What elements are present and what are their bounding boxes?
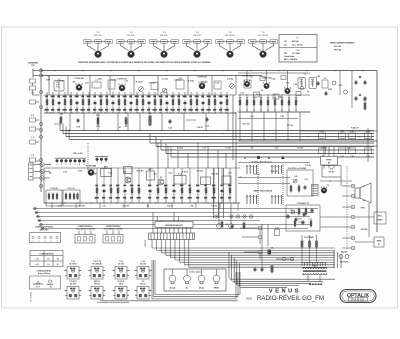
svg-text:680: 680 [94, 174, 97, 176]
svg-text:C.56: C.56 [350, 156, 353, 158]
svg-text:10.7 MHz: 10.7 MHz [292, 53, 300, 55]
svg-text:C.9: C.9 [281, 98, 284, 100]
svg-text:C.40 0.1: C.40 0.1 [197, 126, 203, 129]
svg-text:R.35 470: R.35 470 [137, 170, 144, 173]
svg-text:HP 15: HP 15 [361, 208, 366, 210]
svg-text:Canal faible: Canal faible [284, 56, 295, 58]
svg-text:FM: FM [32, 65, 35, 67]
svg-text:T-10: T-10 [71, 261, 74, 263]
svg-text:C.9: C.9 [274, 98, 277, 100]
svg-text:T-12: T-12 [119, 261, 122, 263]
svg-text:F.I.: F.I. [297, 38, 300, 40]
svg-text:470: 470 [125, 125, 128, 128]
svg-text:B-1: B-1 [186, 288, 189, 290]
svg-text:R.70: R.70 [298, 219, 301, 221]
svg-text:RADIO: RADIO [351, 298, 364, 302]
svg-text:FM: FM [284, 53, 287, 55]
svg-text:R.9: R.9 [364, 100, 367, 102]
svg-text:R.45: R.45 [328, 88, 332, 91]
svg-text:R.35 470: R.35 470 [212, 173, 219, 176]
svg-text:C.9: C.9 [239, 98, 242, 100]
svg-text:VENUS: VENUS [269, 289, 301, 295]
svg-text:432 kHz: 432 kHz [292, 40, 299, 43]
svg-text:BF 254: BF 254 [193, 35, 201, 37]
svg-text:D-5: D-5 [142, 281, 145, 283]
svg-text:a-79: a-79 [35, 264, 38, 266]
svg-text:FM ou GO: FM ou GO [73, 153, 83, 155]
svg-text:RADIO-RÉVEIL GO_FM: RADIO-RÉVEIL GO_FM [257, 295, 324, 302]
svg-text:R.18: R.18 [63, 172, 67, 174]
svg-text:TEMPO: TEMPO [377, 220, 383, 222]
svg-text:C.15: C.15 [59, 114, 63, 116]
svg-text:T-15 (D-1): T-15 (D-1) [69, 281, 77, 283]
svg-text:C.33: C.33 [168, 173, 172, 175]
svg-text:R.2: R.2 [31, 115, 34, 117]
svg-text:PILE 9V: PILE 9V [341, 252, 348, 254]
svg-text:22k: 22k [154, 174, 157, 176]
svg-text:C.25 5p: C.25 5p [227, 79, 233, 81]
svg-text:9-5: 9-5 [57, 259, 59, 261]
svg-text:L.7: L.7 [251, 77, 253, 79]
svg-text:BC 149 B: BC 149 B [258, 35, 268, 37]
svg-text:R.52: R.52 [320, 131, 323, 133]
svg-text:o: o [33, 241, 34, 243]
svg-text:1k: 1k [253, 110, 255, 112]
svg-text:FM 9.68: FM 9.68 [334, 50, 341, 52]
svg-text:P.2 ou VOLUME: P.2 ou VOLUME [294, 168, 306, 170]
svg-text:C.9: C.9 [267, 98, 270, 100]
svg-text:GO: GO [284, 41, 287, 43]
svg-text:C.33: C.33 [124, 81, 128, 83]
svg-text:C.9 10n: C.9 10n [225, 148, 231, 150]
svg-text:C.3: C.3 [31, 137, 34, 139]
svg-text:F.I.2: F.I.2 [178, 174, 181, 176]
svg-text:C.41: C.41 [240, 92, 244, 95]
svg-text:C.25 5p: C.25 5p [305, 165, 311, 167]
svg-text:C.9: C.9 [288, 98, 291, 100]
svg-text:X691: X691 [246, 296, 253, 300]
svg-text:C.62: C.62 [289, 210, 292, 212]
svg-text:BC 158: BC 158 [70, 283, 76, 285]
svg-text:T-11 (T-13): T-11 (T-13) [93, 261, 101, 263]
svg-text:R.8 2.2k: R.8 2.2k [136, 82, 142, 84]
svg-text:TENSIONS MESUREES AVEC VOLTMET: TENSIONS MESUREES AVEC VOLTMETRE A LAMPE… [78, 61, 211, 64]
svg-text:1k: 1k [260, 110, 262, 112]
svg-text:C.33: C.33 [215, 83, 219, 85]
svg-text:L.8: L.8 [304, 74, 306, 76]
svg-text:o: o [51, 241, 52, 243]
svg-text:C.75 REGUL VIT: C.75 REGUL VIT [297, 203, 309, 205]
svg-text:T.6: T.6 [160, 177, 162, 179]
svg-text:1k: 1k [281, 110, 283, 112]
svg-text:R.52: R.52 [340, 131, 343, 133]
svg-text:1k: 1k [288, 110, 290, 112]
svg-text:R.3 150: R.3 150 [211, 206, 217, 208]
svg-text:DRIVE GAMMES PASSEES: DRIVE GAMMES PASSEES [330, 42, 355, 45]
svg-text:COMMUTATEURS: COMMUTATEURS [39, 252, 54, 255]
svg-text:L.9: L.9 [324, 78, 326, 80]
svg-text:L.2: L.2 [95, 80, 97, 82]
svg-text:R.47 100: R.47 100 [243, 123, 250, 126]
svg-text:CONNECTEUR AV: CONNECTEUR AV [37, 270, 52, 273]
svg-text:R.8 2.2k: R.8 2.2k [177, 148, 183, 150]
svg-text:R.52: R.52 [350, 131, 353, 133]
svg-text:BF 194 B: BF 194 B [225, 35, 235, 37]
svg-text:C.28: C.28 [168, 128, 172, 130]
svg-text:CONNECTEUR GO-FM: CONNECTEUR GO-FM [35, 227, 54, 229]
svg-text:T.10: T.10 [330, 169, 333, 171]
svg-text:R.18: R.18 [78, 171, 82, 173]
svg-text:5p: 5p [307, 91, 309, 93]
svg-text:FM: FM [296, 50, 299, 52]
svg-text:C.63: C.63 [298, 222, 301, 224]
svg-text:2-5: 2-5 [47, 259, 49, 261]
svg-text:C.9 10n: C.9 10n [162, 79, 168, 81]
svg-text:1k: 1k [267, 110, 269, 112]
svg-text:C.9: C.9 [253, 98, 256, 100]
svg-text:C.4: C.4 [31, 154, 34, 157]
svg-text:C.48: C.48 [316, 75, 320, 78]
svg-text:BF 255: BF 255 [127, 35, 135, 37]
svg-text:C.18: C.18 [275, 227, 278, 229]
svg-text:PRISE: PRISE [326, 159, 332, 161]
svg-text:P.1: P.1 [226, 224, 228, 226]
svg-text:1k: 1k [246, 110, 248, 112]
svg-text:1k: 1k [295, 110, 297, 112]
svg-text:o: o [57, 241, 58, 243]
svg-text:C.19: C.19 [202, 148, 205, 150]
svg-text:C.56: C.56 [340, 156, 343, 158]
svg-text:R.3 150: R.3 150 [188, 81, 194, 83]
svg-text:R.61: R.61 [294, 176, 297, 178]
svg-text:R.44 C.47: R.44 C.47 [351, 127, 359, 130]
svg-text:C.12: C.12 [178, 78, 182, 80]
svg-text:BF 254: BF 254 [94, 35, 102, 37]
svg-text:a-10: a-10 [35, 259, 38, 261]
svg-text:1k: 1k [274, 110, 276, 112]
svg-text:MA100Z: MA100Z [144, 239, 147, 247]
svg-text:R.14: R.14 [76, 126, 80, 129]
svg-text:S.1: S.1 [119, 127, 122, 129]
svg-text:L.10: L.10 [250, 116, 253, 118]
svg-text:GO 0.66: GO 0.66 [334, 46, 341, 48]
svg-text:T.5 BF194B: T.5 BF194B [86, 165, 97, 168]
svg-text:T.2 BF 255: T.2 BF 255 [117, 79, 126, 81]
svg-text:2k: 2k [261, 90, 263, 92]
svg-text:2 V 7: 2 V 7 [36, 287, 40, 289]
svg-text:R.26 1k: R.26 1k [182, 172, 188, 174]
svg-text:BC 317: BC 317 [329, 172, 335, 174]
svg-text:C.12 47p: C.12 47p [149, 82, 156, 85]
svg-text:T.1 BF 254: T.1 BF 254 [74, 77, 84, 80]
svg-text:100k: 100k [98, 79, 102, 81]
svg-text:o: o [39, 241, 40, 243]
svg-text:(Tuner FM ): (Tuner FM ) [40, 229, 49, 231]
svg-text:MONTAGE MA100Z: MONTAGE MA100Z [165, 224, 183, 227]
svg-text:C.46: C.46 [293, 83, 297, 86]
svg-text:PRISE: PRISE [377, 241, 382, 243]
svg-text:OL a 273 Ks: OL a 273 Ks [292, 44, 303, 46]
svg-text:4.7k: 4.7k [85, 82, 88, 85]
svg-text:(Regl.): (Regl.) [199, 288, 204, 290]
svg-text:M: M [268, 156, 270, 160]
svg-text:RT 12: RT 12 [378, 216, 382, 218]
svg-text:BF 255: BF 255 [160, 35, 168, 37]
svg-text:PRISE: PRISE [214, 288, 219, 290]
svg-text:680: 680 [191, 206, 194, 208]
svg-text:1k: 1k [239, 110, 241, 112]
svg-text:R.31 C.20: R.31 C.20 [67, 188, 74, 190]
svg-text:1-6: 1-6 [47, 264, 49, 266]
svg-text:88.5 a 108 MHz: 88.5 a 108 MHz [284, 59, 297, 61]
svg-text:R.18: R.18 [46, 80, 50, 82]
svg-text:C.9: C.9 [260, 98, 263, 100]
svg-text:C.18 R.30: C.18 R.30 [50, 188, 57, 190]
svg-text:ARRET VEILLE REVEIL: ARRET VEILLE REVEIL [254, 190, 273, 193]
svg-text:C.9: C.9 [295, 98, 298, 100]
svg-text:C.51 5n: C.51 5n [287, 125, 293, 127]
svg-text:C.66: C.66 [304, 179, 307, 181]
svg-text:T.3 BF 255: T.3 BF 255 [197, 77, 206, 79]
svg-text:L.1: L.1 [58, 79, 61, 81]
svg-text:R.3 150: R.3 150 [254, 174, 260, 176]
svg-text:22k: 22k [73, 82, 76, 84]
svg-text:C.49: C.49 [280, 115, 284, 118]
svg-text:C.71: C.71 [308, 219, 311, 221]
svg-text:T.9: T.9 [327, 185, 329, 187]
svg-text:22k: 22k [49, 173, 52, 175]
svg-text:R.T. 2108 A: R.T. 2108 A [30, 292, 33, 302]
svg-text:C.9: C.9 [246, 98, 249, 100]
svg-text:Embase (Jack): Embase (Jack) [189, 272, 201, 274]
svg-text:o: o [45, 241, 46, 243]
svg-text:C.19: C.19 [274, 148, 277, 150]
svg-text:C.44: C.44 [271, 78, 275, 81]
svg-text:MF.2: MF.2 [149, 169, 153, 171]
